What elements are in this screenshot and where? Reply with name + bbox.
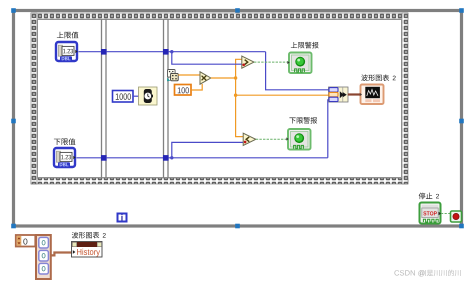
tunnel sep1 lower — [101, 155, 107, 161]
wire dice to multiply — [178, 74, 200, 76]
cluster constant with 3 numeric 0 elements — [36, 235, 51, 279]
wire cluster to property node — [51, 253, 72, 256]
wait(ms) function — [139, 87, 158, 105]
watermark — [394, 270, 424, 277]
wire lower-limit blue frame1 — [77, 157, 102, 159]
greater-than comparison — [242, 56, 254, 68]
numeric constant 1000 — [113, 91, 134, 103]
wire merge to chart (dynamic data) — [348, 93, 361, 95]
merge signals function — [329, 87, 349, 102]
control 上限值 (numeric control terminal) — [56, 42, 77, 61]
control 下限值 (numeric control terminal) — [54, 148, 75, 167]
while loop border — [14, 11, 462, 227]
tunnel sep2 lower — [163, 155, 169, 161]
wire 1000 to wait — [133, 95, 139, 97]
wire gt to upper LED — [254, 61, 288, 63]
control 停止 2 (stop button terminal) — [420, 203, 441, 224]
wire lower-limit blue frame2 — [107, 157, 163, 159]
sequence inner frame lines — [38, 20, 402, 178]
wire lt to lower LED — [256, 138, 287, 140]
multiply function — [200, 72, 211, 84]
flat sequence structure border — [31, 13, 408, 19]
wire upper-limit blue frame2 — [107, 51, 163, 53]
junction dot upper blue — [170, 50, 173, 53]
junction dot lower blue — [170, 156, 173, 159]
loop condition terminal — [451, 211, 462, 222]
tunnel sep2 upper — [163, 49, 169, 55]
wire upper-limit blue frame1 — [79, 51, 102, 53]
waveform chart terminal — [361, 85, 384, 105]
wire stop to condition — [441, 213, 451, 215]
wire upper blue in frame3 — [169, 52, 329, 90]
indicator 上限警报 LED — [289, 53, 312, 74]
coercion dot gt — [242, 63, 245, 66]
tunnel sep1 upper — [101, 49, 107, 55]
numeric constant 100 — [175, 85, 192, 96]
property node History — [72, 242, 103, 258]
junction dots orange — [234, 76, 237, 79]
random number dice function — [168, 70, 176, 78]
label upper-limit 上限值 — [57, 32, 64, 38]
selection handles — [11, 8, 16, 13]
wire lower blue in frame3 — [169, 100, 330, 158]
indicator 下限警报 LED — [288, 129, 311, 150]
label 停止 2 — [419, 193, 426, 200]
wire 100 to multiply — [191, 84, 202, 90]
iteration terminal i — [118, 214, 127, 222]
less-than comparison — [243, 133, 256, 145]
label 波形图表 2 — [361, 74, 368, 81]
label 波形图表 2 (property node) — [72, 232, 79, 238]
wire multiply out / branches — [211, 59, 329, 136]
label lower-limit 下限值 — [54, 139, 61, 145]
frame separator 1 — [102, 19, 107, 178]
coercion dot lt — [244, 141, 247, 144]
array index display — [16, 235, 36, 247]
label 下限警报 — [289, 118, 295, 124]
frame separator 2 — [164, 19, 169, 178]
label 上限警报 — [291, 42, 297, 48]
